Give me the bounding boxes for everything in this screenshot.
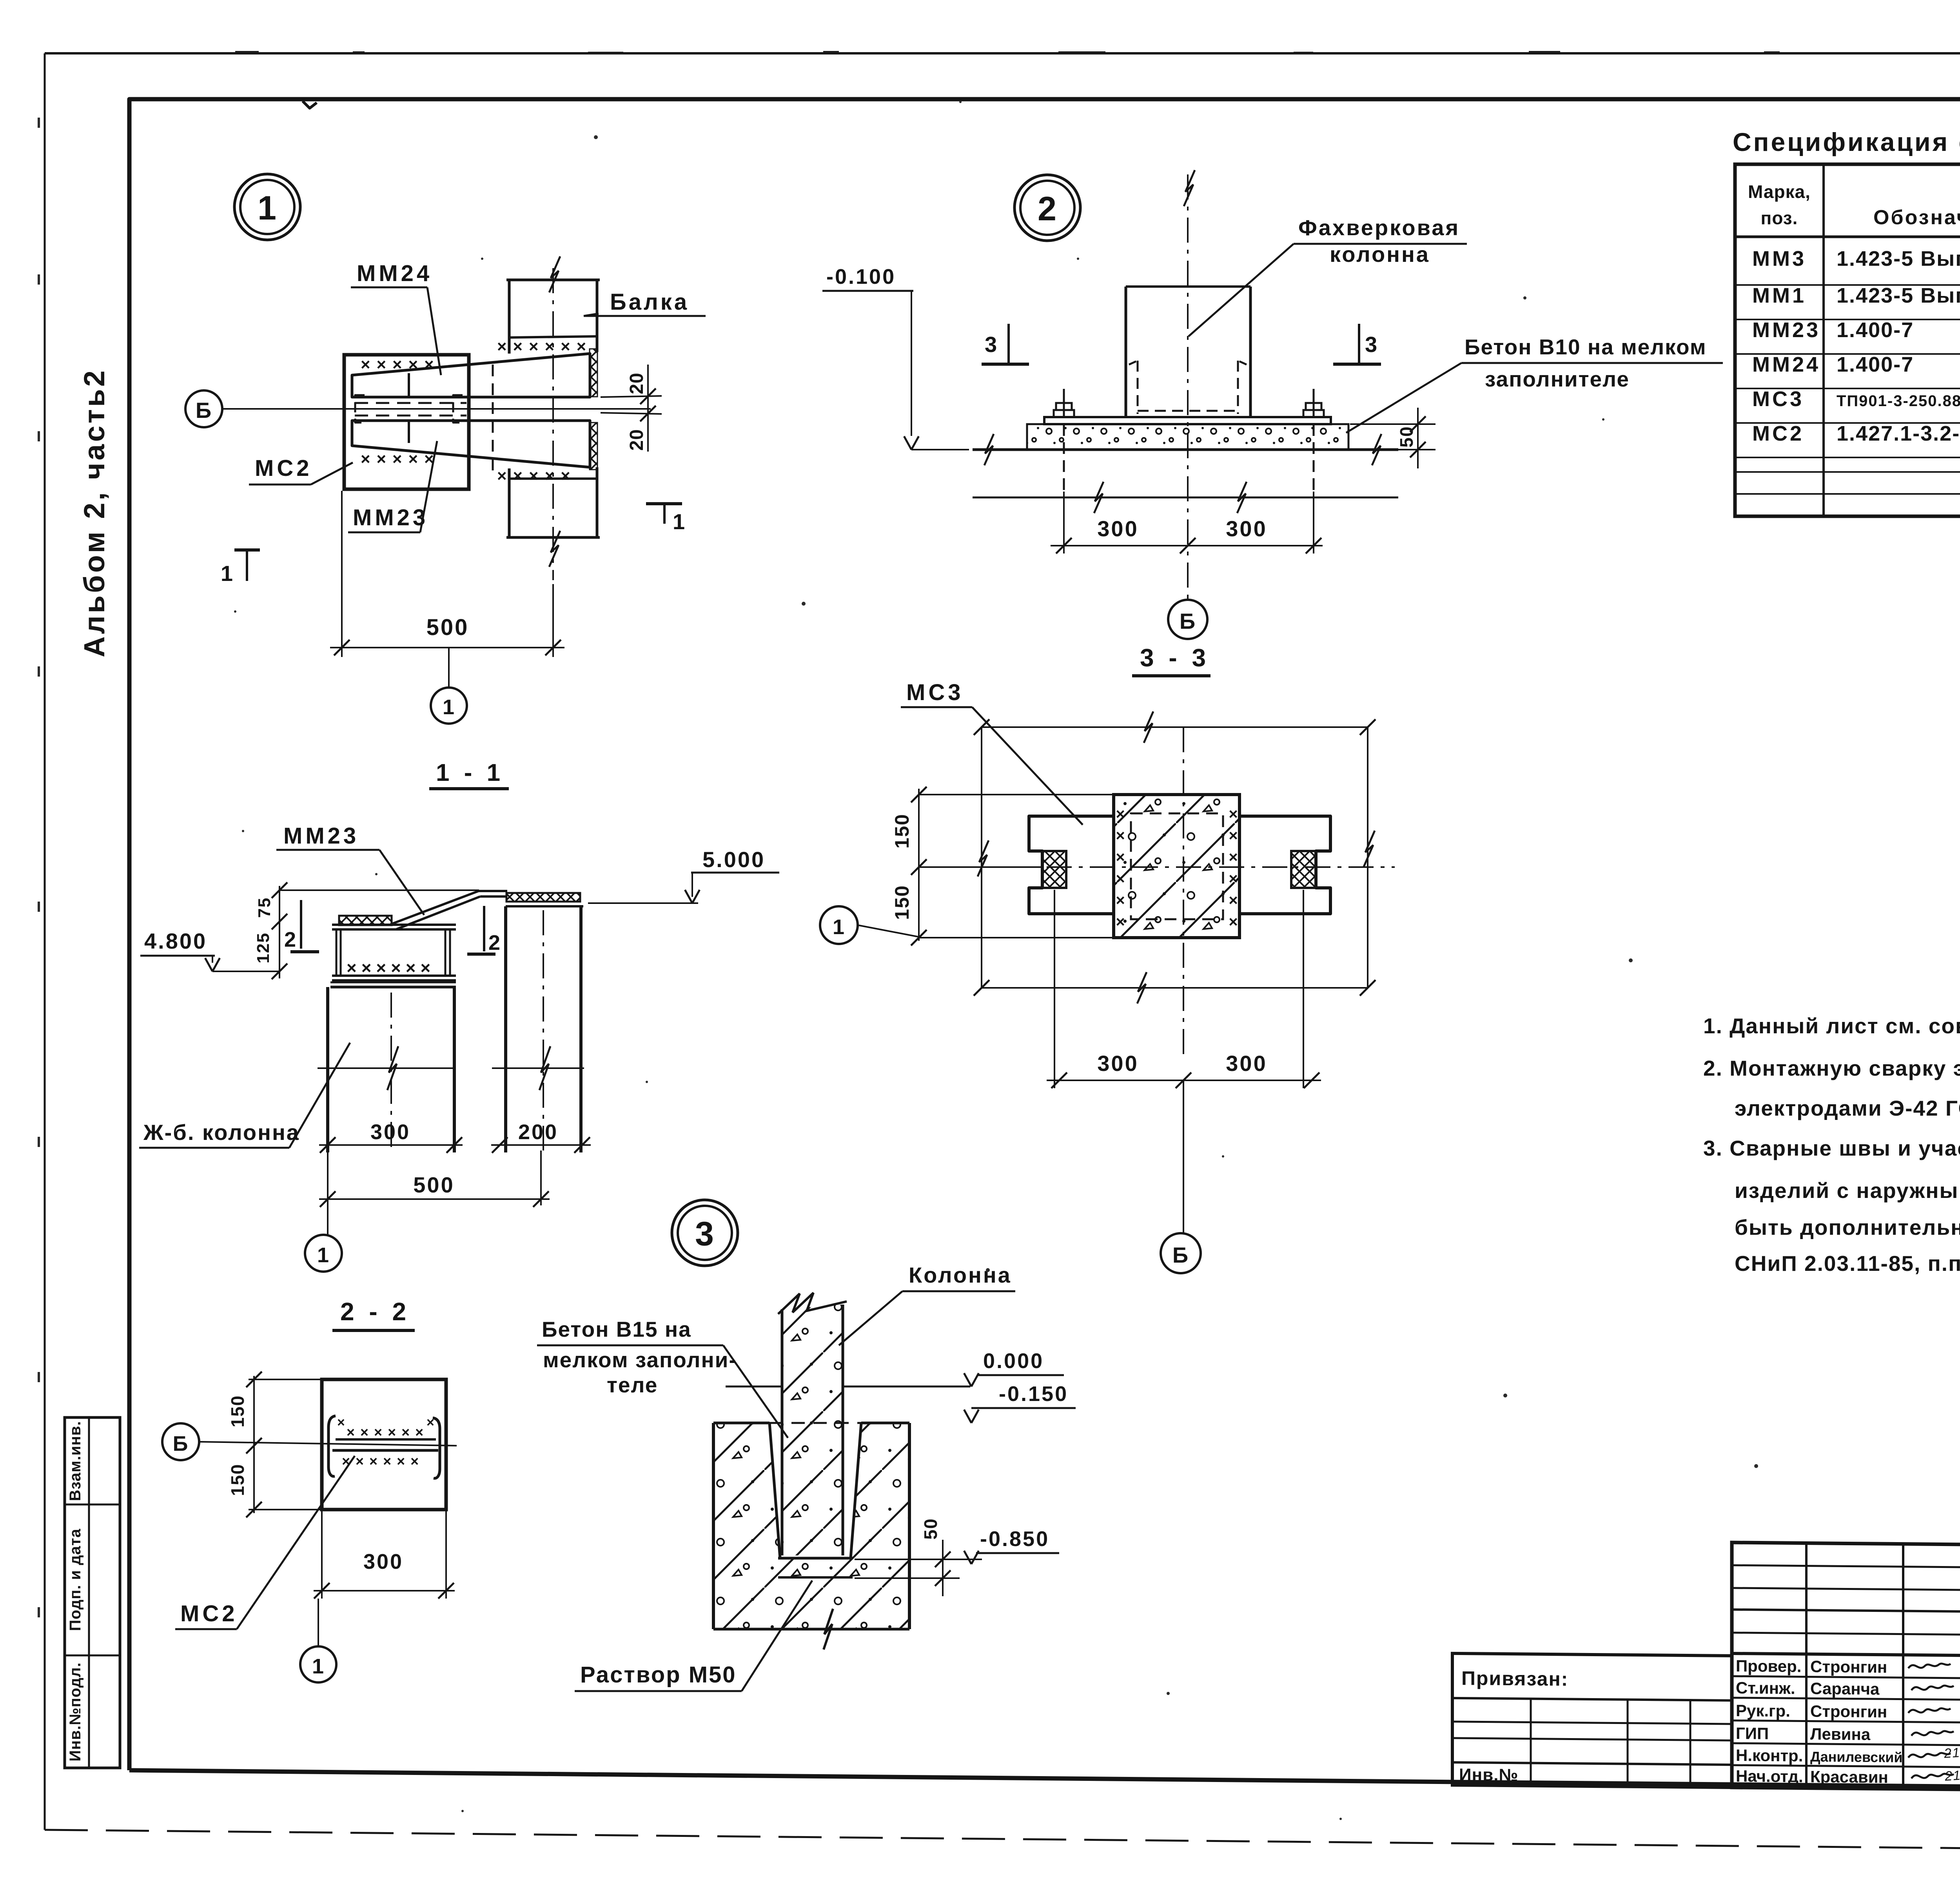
dimension 300 view1-1 (319, 1144, 463, 1146)
axis circle 1 view1-1 (305, 1235, 342, 1272)
dimension 300 300 detail2 (1063, 492, 1065, 553)
svg-text:×: × (1229, 892, 1238, 909)
ground line detail2 (973, 448, 1398, 451)
svg-text:2. Монтажную сварку элементов: 2. Монтажную сварку элементов крепления … (1703, 1056, 1960, 1080)
svg-text:1. Данный лист см. совместно с: 1. Данный лист см. совместно с чертежом … (1703, 1014, 1960, 1038)
svg-text:ММ3: ММ3 (1752, 247, 1806, 270)
column shaft detail 2 (1125, 287, 1127, 417)
axis circle Б detail 1 (185, 390, 222, 427)
svg-text:21.05: 21.05 (1944, 1767, 1960, 1784)
axis circle 1 view2-2 (300, 1646, 336, 1682)
stamp main outline (1732, 1543, 1960, 1794)
anchor hook left (355, 395, 365, 423)
axis to node circle detail1 (448, 648, 450, 688)
svg-text:3: 3 (985, 332, 998, 357)
svg-text:-0.150: -0.150 (999, 1382, 1068, 1406)
svg-text:×: × (1116, 806, 1125, 823)
title block (1452, 1540, 1960, 1794)
section mark 1 left (234, 548, 260, 552)
axis line Б detail 1 (222, 408, 651, 410)
svg-text:2 - 2: 2 - 2 (340, 1298, 410, 1326)
svg-text:1: 1 (258, 189, 277, 227)
svg-text:1: 1 (312, 1655, 325, 1678)
plan vertical axis (1183, 727, 1184, 1058)
dimension 300 view2-2 (321, 1510, 323, 1599)
svg-text:21.05: 21.05 (1943, 1744, 1960, 1761)
node circle 1 (234, 174, 300, 240)
svg-text:1.423-5 Вып. 3: 1.423-5 Вып. 3 (1837, 284, 1960, 307)
svg-text:колонна: колонна (1330, 242, 1430, 267)
svg-text:Балка: Балка (610, 289, 689, 315)
dimension 50 detail2 (1350, 423, 1436, 425)
svg-text:3 - 3: 3 - 3 (1140, 644, 1210, 672)
concrete column left (section) (326, 987, 329, 1152)
svg-text:×: × (426, 1415, 434, 1430)
beam lower part (508, 468, 511, 537)
svg-text:-0.100: -0.100 (826, 265, 896, 289)
svg-text:МС3: МС3 (906, 680, 964, 705)
channel section 2-2 (328, 1416, 336, 1476)
svg-text:Левина: Левина (1810, 1725, 1871, 1744)
column concrete strip (782, 1305, 843, 1555)
beam axis (552, 268, 554, 580)
svg-text:150: 150 (227, 1395, 248, 1428)
bent plate ММ23 (392, 891, 479, 924)
svg-text:2: 2 (488, 931, 501, 955)
section mark 3 left (1007, 324, 1010, 364)
МС2 box section (332, 924, 456, 926)
anchor hook mid (453, 395, 463, 423)
axis circle Б plan (1161, 1233, 1201, 1273)
right beam plan (1240, 816, 1330, 914)
fachwerk column right (section) (506, 893, 580, 902)
svg-text:4.800: 4.800 (144, 929, 207, 953)
base plate (1044, 417, 1331, 424)
svg-text:Спецификация соединительных эл: Спецификация соединительных элементов ка… (1733, 127, 1960, 156)
svg-text:Фахверковая: Фахверковая (1298, 215, 1460, 240)
svg-text:50: 50 (920, 1518, 941, 1539)
stamp sub-block Привязан (1452, 1653, 1732, 1787)
svg-text:×: × (1229, 849, 1238, 866)
dimension 150 150 plan (918, 789, 920, 941)
hidden channel in column (1137, 361, 1139, 414)
dimension 200 view1-1 (491, 1144, 591, 1146)
node circle 1 lower (431, 688, 467, 724)
svg-text:300: 300 (1097, 516, 1138, 541)
svg-text:300: 300 (1226, 1051, 1267, 1076)
svg-text:1.423-5 Вып. 3: 1.423-5 Вып. 3 (1837, 247, 1960, 270)
hidden gap lines (355, 402, 466, 404)
svg-text:Ж-б. колонна: Ж-б. колонна (143, 1120, 300, 1145)
weld strip right top (590, 349, 597, 397)
svg-text:75: 75 (255, 897, 274, 918)
svg-text:Инв.№: Инв.№ (1459, 1765, 1519, 1785)
dimension 500 detail1 (341, 491, 343, 657)
svg-text:150: 150 (227, 1464, 248, 1496)
svg-text:ММ24: ММ24 (1752, 353, 1820, 376)
svg-text:1: 1 (673, 509, 686, 534)
svg-text:СНиП 2.03.11-85, п.п. 2.40 -: СНиП 2.03.11-85, п.п. 2.40 - 2.45 , пп 5… (1735, 1251, 1960, 1276)
svg-text:ММ23: ММ23 (1752, 318, 1820, 342)
foundation block (713, 1423, 909, 1629)
svg-text:-0.850: -0.850 (980, 1527, 1049, 1551)
svg-text:3: 3 (1365, 332, 1378, 357)
svg-text:теле: теле (607, 1373, 658, 1397)
svg-text:МС2: МС2 (1752, 422, 1804, 445)
svg-text:2: 2 (1038, 190, 1057, 228)
column axis detail 2 (1187, 174, 1189, 600)
svg-text:быть дополнительно металлизир: быть дополнительно металлизированы согла… (1735, 1215, 1960, 1239)
svg-text:Бетон В15 на: Бетон В15 на (542, 1317, 691, 1341)
svg-text:×: × (1229, 827, 1238, 844)
svg-text:Альбом 2, часть2: Альбом 2, часть2 (78, 368, 111, 657)
svg-text:ТП901-3-250.88КЖ.И80.0.0.0: ТП901-3-250.88КЖ.И80.0.0.0 (1837, 392, 1960, 410)
axis to circle 1 view2-2 (318, 1599, 319, 1646)
svg-text:1.400-7: 1.400-7 (1837, 318, 1914, 342)
svg-text:ММ1: ММ1 (1752, 284, 1806, 307)
section mark 3 right (1358, 324, 1360, 364)
svg-text:Б: Б (173, 1432, 189, 1455)
left attachment boxes (65, 1417, 120, 1768)
MC2 plate block outline (344, 355, 469, 489)
svg-text:1: 1 (443, 695, 455, 719)
svg-text:Саранча: Саранча (1810, 1679, 1880, 1699)
svg-text:300: 300 (1097, 1051, 1138, 1076)
svg-text:Привязан:: Привязан: (1461, 1667, 1568, 1690)
svg-text:×: × (1229, 913, 1238, 931)
svg-text:Ст.инж.: Ст.инж. (1736, 1679, 1795, 1697)
svg-text:Стронгин: Стронгин (1810, 1657, 1887, 1677)
section mark 2 left (300, 900, 302, 949)
node circle 2 (1014, 175, 1080, 241)
svg-text:ММ23: ММ23 (353, 505, 428, 530)
plate MM24 (top) (352, 354, 590, 397)
svg-text:300: 300 (1226, 516, 1267, 541)
svg-text:МС2: МС2 (180, 1601, 238, 1626)
section mark 1 right (646, 502, 682, 505)
dimension 500 view1-1 (327, 1152, 328, 1235)
svg-text:×: × (1116, 870, 1125, 887)
svg-text:2: 2 (284, 928, 297, 951)
dashed block edge (468, 355, 470, 489)
left weld square (1042, 851, 1066, 888)
svg-text:×: × (1116, 849, 1125, 866)
svg-text:поз.: поз. (1761, 208, 1798, 228)
axis circle 1 plan (820, 906, 858, 944)
axis circle Б detail2 (1168, 600, 1207, 639)
stray mark top left (303, 101, 317, 108)
socket bottom / mortar M50 (778, 1557, 853, 1560)
svg-text:Провер.: Провер. (1736, 1657, 1801, 1675)
svg-text:1.427.1-3.2-0.25.0: 1.427.1-3.2-0.25.0 (1837, 422, 1960, 445)
outer sheet border (45, 52, 1960, 54)
weld pad on MC2 top (339, 916, 392, 925)
svg-text:Бетон В10 на мелком: Бетон В10 на мелком (1465, 335, 1707, 359)
left beam plan (1029, 816, 1114, 914)
svg-text:3: 3 (695, 1215, 715, 1253)
svg-text:Н.контр.: Н.контр. (1736, 1746, 1803, 1765)
plan outer dim right (1367, 727, 1368, 988)
section mark 2 right (483, 906, 485, 951)
node circle 3 (672, 1200, 738, 1266)
svg-text:заполнителе: заполнителе (1485, 367, 1630, 391)
plan outer dim left (981, 727, 982, 988)
dimension 150 150 view2-2 (253, 1376, 255, 1513)
anchor bolt right (1313, 389, 1315, 417)
svg-text:1.400-7: 1.400-7 (1837, 353, 1914, 376)
svg-text:500: 500 (426, 615, 469, 640)
svg-text:125: 125 (254, 932, 273, 963)
svg-text:Стронгин: Стронгин (1810, 1702, 1887, 1721)
svg-text:×: × (1116, 913, 1125, 931)
plan outer dim bottom (982, 987, 1368, 989)
svg-text:Б: Б (1180, 609, 1196, 633)
svg-text:150: 150 (891, 813, 913, 848)
svg-text:изделий с наружным защитным по: изделий с наружным защитным покрытием до… (1735, 1178, 1960, 1203)
concrete B10 strip (1027, 424, 1348, 449)
svg-text:20: 20 (626, 372, 647, 394)
svg-text:3. Сварные швы и участки закла: 3. Сварные швы и участки закладных и сое… (1703, 1136, 1960, 1160)
embed block МС3 (concrete) (1114, 795, 1240, 938)
plate MM23 (bottom) (352, 421, 590, 467)
svg-text:×: × (1116, 892, 1125, 909)
svg-text:Нач.отд.: Нач.отд. (1736, 1767, 1803, 1786)
svg-text:Колонна: Колонна (909, 1263, 1012, 1287)
svg-text:МС2: МС2 (255, 455, 312, 481)
svg-text:×: × (1229, 806, 1238, 823)
svg-text:××××××: ×××××× (347, 1424, 429, 1440)
beam upper part (508, 280, 511, 354)
svg-text:электродами Э-42 ГОСТ9467-75,: электродами Э-42 ГОСТ9467-75, катет шва … (1735, 1096, 1960, 1120)
svg-text:××××××: ×××××× (497, 337, 592, 356)
svg-text:Инв.№подл.: Инв.№подл. (67, 1662, 84, 1761)
svg-text:Б: Б (196, 398, 212, 423)
svg-text:×: × (1116, 827, 1125, 844)
column cap plate (330, 982, 456, 984)
column top break (778, 1293, 847, 1314)
signatures (1908, 1663, 1951, 1668)
axis line view2-2 (199, 1442, 457, 1446)
socket walls (769, 1423, 780, 1558)
svg-text:МС3: МС3 (1752, 387, 1804, 411)
footing underside line (973, 497, 1398, 499)
svg-text:1 - 1: 1 - 1 (436, 759, 504, 786)
svg-text:×: × (337, 1415, 345, 1430)
svg-text:300: 300 (363, 1550, 403, 1573)
specification table frame (1735, 164, 1960, 516)
axis to circle Б plan (1183, 1080, 1184, 1233)
svg-text:200: 200 (518, 1120, 558, 1144)
svg-text:Данилевский: Данилевский (1810, 1749, 1902, 1766)
weld strip right bottom (590, 423, 597, 470)
scan noise dashes top (235, 51, 259, 54)
square outline 2-2 (322, 1379, 446, 1510)
svg-text:50: 50 (1396, 426, 1417, 447)
svg-text:5.000: 5.000 (702, 847, 765, 872)
svg-text:Марка,: Марка, (1748, 181, 1811, 202)
right weld square (1291, 851, 1316, 888)
dimension 50 detail3 (855, 1559, 982, 1560)
svg-text:×××××: ××××× (361, 355, 440, 374)
foundation top dashed across socket (769, 1422, 861, 1424)
svg-text:Рук.гр.: Рук.гр. (1736, 1701, 1790, 1720)
svg-text:Взам.инв.: Взам.инв. (67, 1421, 84, 1501)
svg-text:1: 1 (317, 1243, 330, 1267)
floor line 0.000 (726, 1386, 782, 1388)
svg-text:ММ23: ММ23 (283, 823, 359, 849)
svg-text:Раствор М50: Раствор М50 (580, 1662, 737, 1688)
svg-text:×××××: ××××× (361, 450, 440, 468)
dimension 20 20 gap (601, 396, 662, 397)
plan outer dim top (982, 726, 1368, 728)
svg-text:мелком заполни-: мелком заполни- (543, 1348, 737, 1372)
svg-text:Обозначение: Обозначение (1873, 206, 1960, 229)
bottom trim dashed line (45, 1830, 1960, 1854)
svg-text:150: 150 (891, 885, 913, 920)
axis circle Б view2-2 (162, 1423, 199, 1460)
scan specks (594, 135, 598, 139)
svg-text:500: 500 (413, 1172, 454, 1197)
svg-text:0.000: 0.000 (983, 1349, 1044, 1373)
svg-text:1: 1 (833, 915, 845, 939)
svg-text:Красавин: Красавин (1810, 1768, 1888, 1787)
svg-text:Б: Б (1172, 1243, 1189, 1267)
svg-text:ММ24: ММ24 (357, 261, 432, 286)
svg-text:1: 1 (221, 561, 234, 586)
dimension 75 125 (279, 886, 280, 978)
inner dashed plate (1131, 813, 1223, 919)
svg-text:300: 300 (370, 1120, 410, 1144)
anchor bolt left (1063, 389, 1065, 417)
svg-text:×: × (1229, 870, 1238, 887)
svg-text:20: 20 (626, 429, 647, 450)
plan horizontal axis (960, 866, 1395, 868)
scan noise left edge (38, 118, 40, 128)
svg-text:ГИП: ГИП (1736, 1724, 1769, 1743)
svg-text:Подп. и дата: Подп. и дата (67, 1528, 84, 1631)
dimension 300 300 plan (1054, 890, 1055, 1088)
